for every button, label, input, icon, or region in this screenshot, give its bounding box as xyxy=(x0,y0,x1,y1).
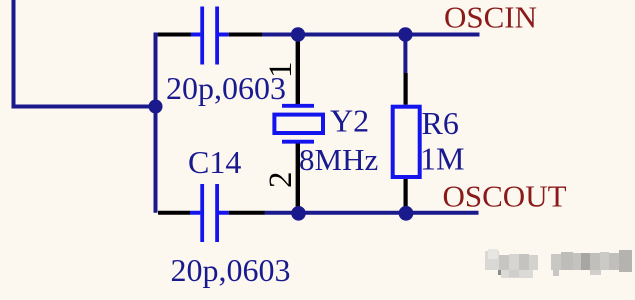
svg-text:Y2: Y2 xyxy=(330,102,369,138)
crystal Y1 pin 1 (black) xyxy=(296,35,300,105)
svg-text:8MHz: 8MHz xyxy=(299,142,378,177)
svg-text:OSCOUT: OSCOUT xyxy=(443,178,567,213)
svg-text:20p,0603: 20p,0603 xyxy=(166,70,286,106)
crystal Y2 pin 2 (black) xyxy=(296,144,300,213)
capacitor C14: plates xyxy=(202,184,217,242)
capacitor C14: pin (black lead right) xyxy=(229,211,265,215)
wire: R6 top connection xyxy=(403,35,407,74)
capacitor C14: pin (black lead left) xyxy=(158,211,190,215)
node bottom 1 (junction crystal pin 2) xyxy=(291,206,306,221)
capacitor C14: blue leads xyxy=(190,211,229,215)
svg-text:OSCIN: OSCIN xyxy=(444,0,537,35)
capacitor C? top: blue leads xyxy=(191,33,229,37)
wire: left vertical rail xyxy=(154,33,158,213)
node top 1 (junction crystal pin 1) xyxy=(291,27,305,41)
wire: left entry (vertical then horizontal into left rail) xyxy=(14,0,156,107)
resistor R6 body xyxy=(393,107,420,177)
node top 2 (junction R6 top) xyxy=(398,27,412,41)
svg-text:1M: 1M xyxy=(420,140,464,176)
wire: top corner stub xyxy=(154,33,161,37)
wire: top horizontal net OSCIN xyxy=(262,33,480,37)
capacitor C? top: pin 2 (black lead right) xyxy=(229,33,263,37)
svg-text:20p,0603: 20p,0603 xyxy=(171,252,291,288)
resistor R6 pin 1 (black) xyxy=(404,73,408,105)
node A (junction left rail / entry wire) xyxy=(149,100,163,114)
capacitor C? top: plates xyxy=(202,7,217,65)
capacitor C? top: pin 1 (black lead left) xyxy=(158,33,191,37)
watermark (blurred) xyxy=(485,249,632,278)
crystal Y2 symbol xyxy=(282,104,314,108)
svg-text:R6: R6 xyxy=(422,105,459,141)
svg-text:2: 2 xyxy=(263,172,299,189)
node bottom 2 (junction R6 bottom) xyxy=(399,206,414,221)
svg-text:C14: C14 xyxy=(188,144,241,180)
resistor R6 pin 2 (black) xyxy=(404,179,408,213)
wire: bottom horizontal net OSCOUT xyxy=(265,211,479,215)
